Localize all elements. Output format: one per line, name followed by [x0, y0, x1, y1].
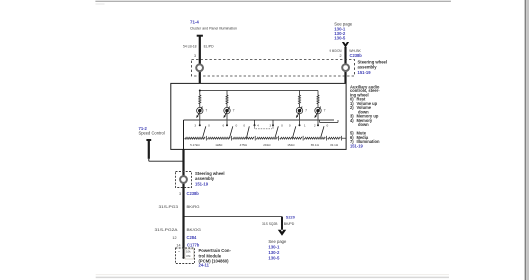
svg-text:47k: 47k	[186, 254, 191, 258]
svg-text:130-1: 130-1	[268, 245, 280, 250]
svg-text:Steering wheel: Steering wheel	[358, 59, 388, 64]
svg-text:65.1Ω: 65.1Ω	[311, 143, 320, 147]
svg-text:0: 0	[236, 124, 238, 128]
svg-text:6: 6	[223, 124, 225, 128]
svg-text:2: 2	[314, 124, 316, 128]
svg-text:31S-PG2A: 31S-PG2A	[155, 228, 179, 232]
svg-text:7: 7	[324, 108, 326, 112]
svg-text:130-5: 130-5	[268, 255, 280, 260]
svg-text:14: 14	[176, 244, 180, 248]
svg-text:151-19: 151-19	[195, 181, 209, 186]
svg-text:7: 7	[233, 108, 235, 112]
svg-text:BK/PD: BK/PD	[284, 222, 295, 226]
svg-text:9 MO/CM: 9 MO/CM	[330, 49, 342, 53]
svg-text:down: down	[358, 122, 369, 127]
svg-text:7: 7	[205, 108, 207, 112]
svg-text:Speed Control: Speed Control	[139, 130, 165, 135]
svg-text:71-4: 71-4	[190, 20, 199, 25]
svg-text:Steering wheel: Steering wheel	[195, 171, 225, 176]
svg-text:0: 0	[208, 124, 210, 128]
svg-text:EL/PD: EL/PD	[204, 45, 214, 49]
svg-text:C177b: C177b	[187, 243, 200, 248]
svg-text:0: 0	[281, 124, 283, 128]
svg-text:130-5: 130-5	[334, 35, 346, 40]
svg-text:1k8Ω: 1k8Ω	[215, 143, 223, 147]
svg-text:31S-PG3: 31S-PG3	[159, 205, 179, 209]
svg-text:54 LB-18: 54 LB-18	[183, 45, 197, 49]
svg-text:2: 2	[339, 54, 341, 58]
svg-text:BK/OG: BK/OG	[187, 228, 202, 232]
svg-text:2): 2)	[350, 105, 354, 110]
svg-text:3: 3	[269, 124, 271, 128]
svg-text:assembly: assembly	[358, 65, 378, 70]
svg-text:0: 0	[327, 124, 329, 128]
svg-text:151-19: 151-19	[358, 70, 372, 75]
svg-text:151-19: 151-19	[350, 143, 363, 148]
svg-text:10k: 10k	[186, 250, 191, 254]
svg-text:Cluster and Panel Illumination: Cluster and Panel Illumination	[190, 25, 237, 30]
svg-text:31S SQ2B: 31S SQ2B	[262, 222, 278, 226]
svg-text:291Ω: 291Ω	[263, 143, 271, 147]
svg-text:assembly: assembly	[195, 176, 215, 181]
svg-text:33.1Ω: 33.1Ω	[330, 143, 339, 147]
svg-text:C238b: C238b	[187, 191, 200, 196]
svg-text:S220: S220	[286, 215, 295, 220]
svg-text:475Ω: 475Ω	[240, 143, 248, 147]
svg-text:C284: C284	[187, 235, 198, 240]
svg-text:154Ω: 154Ω	[287, 143, 295, 147]
svg-text:4): 4)	[350, 118, 354, 123]
svg-text:5.17kΩ: 5.17kΩ	[190, 143, 200, 147]
svg-text:24-11: 24-11	[199, 263, 210, 268]
svg-text:130-2: 130-2	[268, 250, 280, 255]
svg-text:See page: See page	[268, 239, 287, 244]
svg-text:3: 3	[194, 54, 196, 58]
svg-text:4: 4	[257, 124, 259, 128]
svg-text:0: 0	[243, 124, 245, 128]
svg-text:0: 0	[289, 124, 291, 128]
svg-text:1: 1	[304, 124, 306, 128]
svg-text:WH-BK: WH-BK	[349, 49, 361, 53]
svg-text:12: 12	[172, 236, 176, 240]
svg-text:3: 3	[194, 124, 196, 128]
svg-text:7: 7	[305, 108, 307, 112]
svg-text:BK/RG: BK/RG	[187, 205, 200, 209]
svg-text:3: 3	[179, 192, 181, 196]
svg-text:C238b: C238b	[350, 53, 363, 58]
